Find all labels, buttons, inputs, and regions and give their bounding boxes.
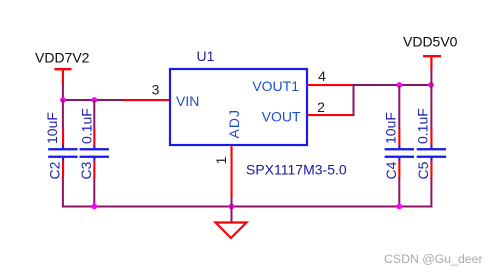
- wire: top-right horizontal: [354, 84, 433, 86]
- capacitor C5: [417, 129, 446, 177]
- capacitor C3: [80, 129, 109, 177]
- pin 4 stub of U1: [307, 84, 354, 86]
- wire: VDD7V2 stub down to node: [62, 84, 64, 100]
- svg-text:10uF: 10uF: [44, 112, 60, 144]
- svg-text:C5: C5: [415, 161, 431, 179]
- wire: C4 upper segment: [398, 86, 400, 129]
- wire: C3 upper segment: [93, 100, 95, 129]
- svg-text:C3: C3: [78, 161, 94, 179]
- svg-text:VOUT1: VOUT1: [252, 78, 299, 94]
- svg-text:2: 2: [317, 99, 325, 115]
- wire: C5 upper segment: [430, 86, 432, 129]
- wire: C2 upper segment: [62, 100, 64, 129]
- svg-text:C4: C4: [383, 161, 399, 179]
- power bar symbol VDD5V0: [423, 55, 441, 69]
- svg-text:0.1uF: 0.1uF: [414, 108, 430, 144]
- svg-text:4: 4: [318, 68, 326, 84]
- wire: C5 lower segment: [430, 177, 432, 208]
- node junction at C5 top / VDD5V0: [428, 82, 434, 88]
- node junction at C2 top: [60, 97, 66, 103]
- svg-text:C2: C2: [47, 161, 63, 179]
- pin 2 stub of U1: [307, 114, 354, 116]
- svg-text:0.1uF: 0.1uF: [78, 108, 94, 144]
- svg-text:1: 1: [213, 156, 229, 164]
- power bar symbol VDD7V2: [55, 68, 72, 85]
- wire: C2 lower segment: [62, 177, 64, 208]
- wire: vertical joining pin 2 to pin 4 net: [353, 84, 355, 116]
- wire: C4 lower segment: [398, 177, 400, 208]
- node junction at C4 top: [396, 82, 402, 88]
- pin 3 stub of U1: [123, 99, 170, 101]
- svg-text:VIN: VIN: [176, 93, 199, 109]
- node junction at C3 bottom: [91, 204, 97, 210]
- node junction at ADJ/ground: [229, 204, 235, 210]
- capacitor C2: [48, 129, 77, 177]
- op-amp box U1 outline: [170, 69, 307, 145]
- ground symbol: [216, 223, 247, 239]
- svg-text:CSDN @Gu_deer: CSDN @Gu_deer: [384, 252, 483, 266]
- svg-text:ADJ: ADJ: [226, 109, 242, 138]
- svg-text:SPX1117M3-5.0: SPX1117M3-5.0: [246, 162, 347, 178]
- svg-text:U1: U1: [197, 48, 215, 64]
- node junction at C4 bottom: [396, 204, 402, 210]
- capacitor C4: [385, 129, 414, 177]
- wire: top-left horizontal: [62, 99, 124, 101]
- svg-text:3: 3: [152, 82, 160, 98]
- svg-text:VDD7V2: VDD7V2: [35, 50, 90, 66]
- pin 1 stub of U1 (ADJ): [231, 145, 233, 198]
- wire: bottom horizontal rail: [62, 206, 433, 208]
- wire: ground stub: [231, 198, 233, 223]
- svg-text:10uF: 10uF: [383, 112, 399, 144]
- wire: C3 lower segment: [93, 177, 95, 208]
- svg-text:VDD5V0: VDD5V0: [403, 34, 458, 50]
- wire: VDD5V0 stub down to node: [430, 69, 432, 85]
- svg-text:VOUT: VOUT: [262, 108, 301, 124]
- node junction at C3 top: [91, 97, 97, 103]
